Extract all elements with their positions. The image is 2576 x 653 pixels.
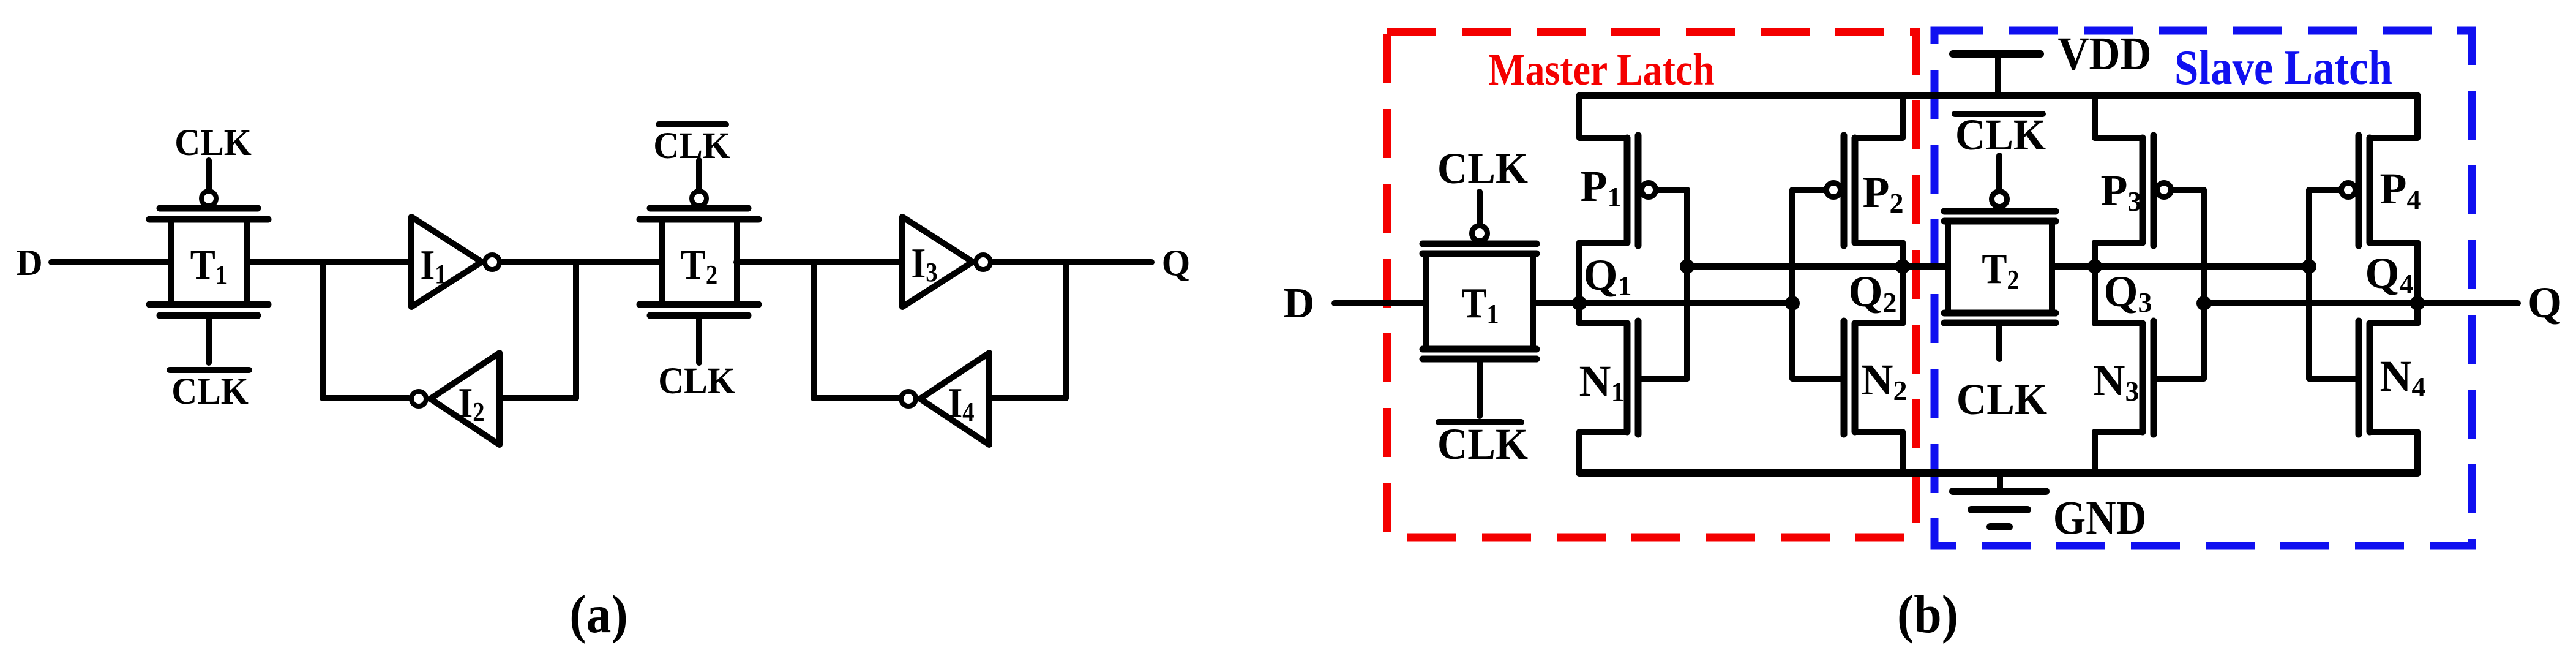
CLK label above T1 (b)	[1437, 144, 1529, 193]
transmission gate T2 (b)	[1944, 211, 2056, 323]
CLK label below T2	[658, 360, 735, 402]
node Q1 label	[1583, 251, 1631, 301]
svg-text:P4: P4	[2380, 164, 2421, 215]
wire branch down to I4 input	[1063, 262, 1069, 398]
transistor N4 (NMOS)	[2309, 321, 2417, 473]
node D (input label, part a)	[16, 243, 42, 283]
wire branch down to I2 output	[320, 262, 326, 398]
svg-text:Q3: Q3	[2103, 267, 2152, 318]
svg-text:Q1: Q1	[1583, 251, 1631, 301]
node Q4 label	[2365, 249, 2413, 300]
CLK label below T2 (b)	[1956, 375, 2048, 424]
svg-text:CLK: CLK	[174, 122, 252, 164]
node Q3 label	[2103, 267, 2152, 318]
Slave Latch label	[2174, 41, 2392, 95]
svg-text:I1: I1	[420, 241, 446, 289]
transmission gate T1 (b)	[1423, 244, 1537, 359]
transistor N2 (NMOS)	[1792, 321, 1903, 473]
svg-text:(b): (b)	[1897, 584, 1958, 644]
GND rail (bottom)	[1579, 469, 2417, 477]
inverter I3	[902, 217, 990, 307]
svg-text:I2: I2	[458, 379, 484, 427]
inverter I2	[411, 353, 500, 445]
caption (a)	[569, 584, 627, 644]
P3 label	[2101, 166, 2142, 217]
svg-text:CLK: CLK	[171, 371, 249, 412]
wire I3 to Q	[993, 259, 1151, 265]
CLKbar label above T2	[653, 124, 730, 166]
N3 label	[2094, 356, 2140, 407]
inverter I1	[411, 217, 500, 307]
wire I2 output to branch	[323, 395, 409, 401]
svg-text:Slave Latch: Slave Latch	[2174, 41, 2392, 95]
svg-text:D: D	[1284, 280, 1315, 327]
svg-text:CLK: CLK	[658, 360, 735, 402]
N2 label	[1862, 355, 1908, 406]
ground symbol	[1953, 473, 2046, 527]
svg-text:(a): (a)	[569, 584, 627, 644]
wire T1 to I1	[247, 259, 411, 265]
svg-text:T2: T2	[681, 241, 717, 289]
svg-text:N1: N1	[1579, 357, 1625, 407]
transistor N1 (NMOS)	[1579, 321, 1687, 473]
CLKbar label below T1	[170, 370, 249, 412]
svg-text:T1: T1	[190, 241, 227, 289]
junction at P3/N3 gate vertical	[2196, 296, 2211, 311]
inv3 gate vertical	[2201, 190, 2207, 379]
svg-text:Q4: Q4	[2365, 249, 2413, 300]
junction at P1/N1 gate vertical	[1680, 259, 1694, 274]
svg-text:T2: T2	[1982, 245, 2019, 295]
inv3 drain vertical (node Q3)	[2092, 243, 2098, 323]
T2 (b) bottom gate stub	[1996, 323, 2002, 359]
wire T2 to I3	[736, 259, 902, 265]
T1 (b) gate stub + bubble (top)	[1472, 192, 1488, 241]
inv2 drain vertical (node Q2)	[1900, 243, 1906, 323]
transistor P4 (PMOS)	[2309, 96, 2417, 246]
caption (b)	[1897, 584, 1958, 644]
wire I2 input from branch	[500, 395, 576, 401]
svg-text:T1: T1	[1461, 279, 1499, 330]
transmission gate T2	[640, 160, 758, 363]
wire D to T1	[1335, 300, 1426, 306]
svg-text:P2: P2	[1863, 168, 1904, 219]
inv1 gate vertical	[1684, 190, 1690, 379]
svg-text:Master Latch: Master Latch	[1488, 45, 1715, 94]
inv4 drain vertical (node Q4)	[2414, 243, 2421, 323]
node Q2 label	[1848, 267, 1896, 318]
junction Q2	[1895, 259, 1910, 274]
P1 label	[1581, 162, 1622, 213]
node Q (output label, part a)	[1162, 243, 1191, 283]
junction at P2/N2 gate vertical	[1785, 296, 1800, 311]
node Q (output label, part b)	[2528, 278, 2562, 327]
VDD rail (top)	[1579, 92, 2417, 99]
wire I1 to T2	[502, 259, 662, 265]
svg-text:CLK: CLK	[1437, 144, 1529, 193]
N1 label	[1579, 357, 1625, 407]
CLKbar label above T2 (b)	[1955, 110, 2046, 159]
Slave Latch dashed box	[1934, 31, 2472, 546]
VDD symbol	[1953, 54, 2040, 96]
junction Q1	[1572, 296, 1587, 311]
N4 label	[2380, 352, 2426, 402]
svg-text:VDD: VDD	[2057, 28, 2151, 80]
svg-text:N4: N4	[2380, 352, 2426, 402]
inv4 gate vertical	[2306, 190, 2312, 379]
inverter I4	[901, 353, 989, 445]
CLKbar label below T1 (b)	[1437, 420, 1529, 469]
wire inv1 gates to Q2 to T2 (upper master wire)	[1687, 263, 1948, 270]
wire branch down to I2 input	[573, 262, 579, 398]
transistor P2 (PMOS)	[1792, 96, 1903, 246]
junction Q3	[2087, 259, 2102, 274]
svg-text:P3: P3	[2101, 166, 2142, 217]
svg-text:N2: N2	[1862, 355, 1908, 406]
transistor P3 (PMOS)	[2095, 96, 2204, 246]
svg-text:CLK: CLK	[1437, 420, 1529, 469]
transistor P1 (PMOS)	[1579, 96, 1687, 246]
Master Latch label	[1488, 45, 1715, 94]
wire inv3 gates to Q4 to Q out (lower slave wire)	[2204, 300, 2518, 306]
svg-text:D: D	[16, 243, 42, 283]
transistor N3 (NMOS)	[2095, 321, 2204, 473]
transmission gate T1	[149, 160, 268, 363]
svg-text:Q: Q	[1162, 243, 1191, 283]
wire I4 output to branch	[814, 395, 899, 401]
junction at P4/N4 gate vertical	[2302, 259, 2316, 274]
node D (input label, part b)	[1284, 280, 1315, 327]
svg-text:CLK: CLK	[1956, 375, 2048, 424]
T2 (b) gate stub + bubble (top)	[1992, 156, 2007, 207]
wire I4 input from branch	[989, 395, 1066, 401]
CLK label above T1	[174, 122, 252, 164]
VDD label	[2057, 28, 2151, 80]
wire T1 out / node Q1	[1533, 300, 1792, 306]
svg-text:Q2: Q2	[1848, 267, 1896, 318]
T1 (b) bottom gate stub	[1477, 359, 1483, 416]
inv1 drain vertical (node Q1)	[1576, 243, 1582, 323]
wire T2 out / node Q3 (upper slave wire)	[2052, 263, 2309, 270]
P2 label	[1863, 168, 1904, 219]
svg-text:N3: N3	[2094, 356, 2140, 407]
svg-text:GND: GND	[2053, 491, 2147, 544]
svg-text:I3: I3	[911, 240, 937, 287]
inv2 gate vertical	[1789, 190, 1795, 379]
Master Latch dashed box	[1387, 32, 1916, 537]
wire branch down to I4 output	[811, 262, 817, 398]
junction Q4	[2410, 296, 2425, 311]
svg-text:P1: P1	[1581, 162, 1622, 213]
svg-text:CLK: CLK	[653, 125, 730, 167]
svg-text:I4: I4	[948, 379, 974, 427]
GND label	[2053, 491, 2147, 544]
svg-text:CLK: CLK	[1955, 110, 2046, 159]
wire D to T1	[51, 259, 170, 265]
svg-text:Q: Q	[2528, 278, 2562, 327]
P4 label	[2380, 164, 2421, 215]
